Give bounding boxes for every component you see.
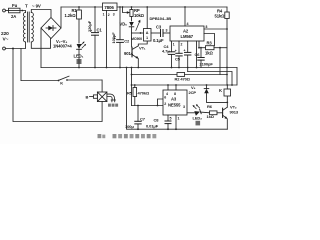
svg-text:10kΩ: 10kΩ [134,13,145,18]
svg-text:5: 5 [170,117,172,121]
wire fuse to transformer primary top [20,11,26,13]
node R1 top rail [78,6,80,8]
svg-text:9013: 9013 [230,110,239,115]
svg-text:6: 6 [164,96,166,100]
label R3 [207,41,213,46]
label 1kOhm R6 [207,114,215,119]
svg-text:2: 2 [164,102,166,106]
node C6 top [200,47,202,49]
label 220uF vertical [87,20,92,32]
label R4 [217,9,223,14]
LED2 red indicator [193,104,210,116]
node y74.5 x227 [226,74,228,76]
svg-text:K: K [219,88,222,93]
label C5 [175,57,181,62]
svg-text:8: 8 [174,92,176,96]
capacitor C1 electrolytic [92,7,99,68]
svg-text:+: + [184,48,186,52]
wire A3 pin3 output [187,112,195,114]
label DPB104-3B [150,16,172,21]
wire switch to valve top [101,80,103,92]
label RP [134,8,140,13]
node C7 top [137,105,139,107]
label 1N4007x4 [53,44,72,49]
wire valve bottom return [13,49,102,122]
resistor R2 [177,73,227,77]
wire lower terminal to primary bottom [5,42,25,49]
svg-text:K: K [60,81,63,86]
node stub rail [122,6,124,8]
capacitor C8 [165,115,171,129]
label VT1 [139,46,146,51]
label 0.01uF [146,124,159,129]
label LED1 [74,54,84,59]
wire VT1 emitter to ground bus [137,59,139,68]
label 51kOhm [215,14,226,19]
svg-text:3: 3 [113,13,115,17]
capacitor C6 [198,48,204,68]
arrow pointing to A1 input node [136,20,141,31]
label B valve [86,94,89,99]
label 470kOhm [138,90,150,95]
IC A3 NE555 [163,90,187,115]
svg-text:2CP: 2CP [189,90,197,95]
wire VD5 node to A1 input [132,32,144,34]
transistor VT1 [132,46,139,59]
sensor module A1 [144,29,152,42]
capacitor C5b [185,41,191,68]
label 220 V~ [1,31,9,43]
node R5 top supply [134,84,136,86]
pin number 4 [187,22,189,26]
svg-text:0.01μF: 0.01μF [146,124,159,129]
svg-text:R5: R5 [127,90,133,95]
wire A2 right side pin to rail x227 [204,28,227,30]
node vertical B supply [131,84,133,86]
pin number 4 [166,92,168,96]
svg-text:1: 1 [173,42,175,46]
wire routing y74.5 from vertical B [132,74,178,76]
svg-text:LM567: LM567 [181,34,194,39]
RP wiper arrow from rail [123,7,131,14]
svg-text:NE555: NE555 [168,103,181,108]
pin number 2 A2 [181,42,183,46]
svg-text:C2: C2 [124,39,130,44]
node vertical B bus [131,67,133,69]
wire bridge minus down to ground bus [40,28,42,68]
bridge rectifier VD1-VD4 diamond [41,18,61,39]
resistor R5 [133,85,137,106]
svg-text:VD₅: VD₅ [120,22,128,27]
node junction at x13 on lower lead [12,48,14,50]
label valve CJK [108,104,118,107]
transformer T primary winding [23,13,25,42]
wire bridge plus to top rail [60,7,62,28]
label T ~9V [25,4,41,9]
svg-text:3: 3 [183,105,185,109]
svg-text:7806: 7806 [104,5,114,10]
node pin1 ground [175,128,177,130]
wire VT1 collector to A1 bottom [138,41,147,46]
polarity mark C5 [175,49,177,53]
relay coil K [224,85,231,96]
node y71.5 supply [231,84,233,86]
svg-text:4: 4 [187,22,189,26]
svg-text:C6: C6 [195,52,201,57]
svg-text:DPB104–3B: DPB104–3B [150,16,172,21]
label 2100pF [200,62,214,67]
label V1~V4 [56,39,67,44]
wire A3 pin8 to supply [175,85,177,90]
svg-text:51kΩ: 51kΩ [215,14,226,19]
svg-text:LED₁: LED₁ [74,54,84,59]
line y106 to A3 [132,105,164,107]
node VD6 collector join [226,102,228,104]
wire A2 right pin2 down to R3 line [204,34,215,46]
label 100uF vertical [111,32,116,44]
label 0.1uF [153,38,164,43]
svg-text:8: 8 [206,25,208,29]
node x196.5 bus [196,67,198,69]
wire ground bus [41,67,237,69]
node C4 bus [171,67,173,69]
svg-text:1N4007×4: 1N4007×4 [53,44,72,49]
svg-text:1.2kΩ: 1.2kΩ [65,13,77,18]
label 10kOhm [134,13,145,18]
label R1 [72,8,78,13]
svg-text:Fu: Fu [12,3,18,8]
svg-text:~ 9V: ~ 9V [32,4,41,9]
label C4 [164,44,170,49]
pin number 5 [170,117,172,121]
wire VT2 emitter to ground [226,119,228,129]
label VD5 [120,22,128,27]
node C5b bus [187,67,189,69]
svg-text:4.7μ: 4.7μ [162,49,170,54]
bridge inner diode symbol [46,26,56,31]
node C2 ground bus [119,67,121,69]
label 100uF [125,124,134,129]
label Fu [12,3,18,8]
LED1 green indicator [77,42,86,68]
supply line y85 lower block [132,84,237,86]
label 2A [11,14,16,19]
label 1kOhm [205,51,213,56]
svg-text:4: 4 [166,92,168,96]
pin number 3 [166,29,168,33]
svg-text:1kΩ: 1kΩ [207,114,215,119]
label R5 [127,90,133,95]
wire top rail right of 7806 [117,6,227,8]
svg-text:1kΩ: 1kΩ [205,51,213,56]
svg-text:A3: A3 [171,97,177,102]
svg-text:C3: C3 [156,25,162,30]
IC A2 LM567 [170,26,204,41]
label VD6 [191,85,196,90]
svg-text:0.1μF: 0.1μF [153,38,164,43]
resistor R1 [77,7,82,43]
node x126.5 bus top [126,67,128,69]
solenoid valve YV box [97,92,107,102]
label 2CP [189,90,197,95]
resistor R3 [199,46,227,50]
polarity mark C1 [90,29,93,33]
svg-text:C8: C8 [154,118,160,123]
node VD6 supply [206,84,208,86]
node stub y105.5 [157,105,159,107]
svg-text:470kΩ: 470kΩ [138,90,150,95]
label R2 470 Ohm [175,76,191,81]
wire vertical B from bus down [131,68,133,106]
svg-text:R2 470Ω: R2 470Ω [175,76,191,81]
valve faucet outlet [107,94,116,102]
label 9014 [124,51,134,56]
transistor VT2 [223,107,228,119]
wire secondary bottom to bridge bottom vertex [31,39,50,49]
capacitor C2 electrolytic [117,7,124,68]
svg-text:R6: R6 [207,104,213,109]
label C2 [124,39,130,44]
wire A3 pin1 to ground [175,115,177,129]
node R3 left [198,47,200,49]
svg-text:A2: A2 [183,29,189,34]
svg-text:2: 2 [108,13,110,17]
node x227 y29 [226,28,228,30]
wire A3 pin4 to supply [167,85,169,90]
label K [219,88,222,93]
switch K contact [21,76,102,81]
svg-text:C7: C7 [140,117,146,122]
label LED2 [193,116,203,121]
node C2 top rail [119,6,121,8]
svg-text:VT₁: VT₁ [139,46,146,51]
node y74.5 vertical B [131,74,133,76]
pin number 2 7806 [108,13,110,17]
svg-text:C5: C5 [175,57,181,62]
resistor R6 [210,111,223,115]
wire top rail [61,6,102,8]
polarity mark C5b [184,48,186,52]
wire R3 right down to y75.5 [219,48,221,75]
label MC900 [131,37,142,41]
label VT2 [230,105,237,110]
caption figure title blocks [98,134,157,138]
label C1 [97,28,103,33]
svg-text:3: 3 [166,29,168,33]
label switch K [60,81,63,86]
node A2 pin4 rail [184,6,186,8]
node C1 ground bus [94,67,96,69]
svg-text:A: A [146,31,149,35]
wire A2 pin to bus x196.5 [196,41,198,68]
node fuse output [21,10,23,12]
node A1 rail [146,6,148,8]
wire A1 top pin to rail [146,7,148,29]
node C5 bus [178,67,180,69]
label C3 [156,25,162,30]
label green [77,59,82,64]
capacitor C4 [168,41,174,68]
svg-text:220μF: 220μF [87,20,92,32]
diode VD5 [129,22,134,47]
pin number 3 [183,105,185,109]
wire routing y71.5 from A2 pin [188,68,232,86]
label 4.7uF [162,49,170,54]
wire A2 top pin 4 to rail [184,7,186,26]
node pin4 supply [167,84,169,86]
svg-text:220: 220 [1,31,9,37]
pin number 3 7806 [113,13,115,17]
pin number 6 [164,96,166,100]
label C8 [154,118,160,123]
node LED1 ground bus [78,67,80,69]
terminal lower 220V input [3,47,6,50]
label plus C2 [114,36,117,40]
wire switch feed from primary bottom [20,49,22,81]
label C7 [140,117,146,122]
label 9013 [230,110,239,115]
svg-text:9014: 9014 [124,51,134,56]
terminal upper 220V input [3,9,9,12]
regulator U 7806 [103,3,118,11]
svg-text:1: 1 [146,36,148,40]
capacitor C5 [176,41,182,68]
svg-text:2: 2 [181,42,183,46]
label C6 [195,52,201,57]
valve left nub [90,95,98,98]
svg-text:2100pF: 2100pF [200,62,214,67]
pin number 8 [174,92,176,96]
svg-text:T: T [25,4,28,9]
node VD5 wire to A1 [140,32,142,34]
label R6 [207,104,213,109]
wire VT2 collector to relay [226,96,228,107]
diode VD6 flyback [204,85,227,102]
svg-text:2A: 2A [11,14,16,19]
capacitor C3 [151,30,170,37]
resistor R4 [225,7,229,85]
wire stub to A3 pin6 [158,99,164,106]
node RP top rail [131,6,133,8]
potentiometer RP [130,7,133,21]
node pin8 supply [175,84,177,86]
svg-text:LED₂: LED₂ [193,116,203,121]
svg-text:C1: C1 [97,28,103,33]
svg-text:1: 1 [103,13,105,17]
label red [196,121,201,126]
pin number 1 A2 [173,42,175,46]
pin number 1 [178,117,180,121]
capacitor C7 electrolytic [135,106,141,130]
wire bus corner to supply line right [236,68,238,86]
pin number 2 [164,102,166,106]
wire A2 right pin stub to R3 [198,41,200,48]
transformer core [28,12,30,42]
svg-text:V~: V~ [3,37,9,43]
svg-text:MC900: MC900 [131,37,142,41]
pin number 1 7806 [103,13,105,17]
pin number 8 A2 [206,25,208,29]
node relay supply [226,84,228,86]
node 7806 gnd bus [106,67,108,69]
node C7 ground [137,128,139,130]
ground bus lower right [127,68,228,130]
node VT1 emitter bus [137,67,139,69]
svg-text:1: 1 [178,117,180,121]
node R3 right x220 [219,47,221,49]
wire secondary top to bridge top vertex [31,10,51,18]
label 1.2kOhm [65,13,77,18]
svg-text:100μF: 100μF [111,32,116,44]
wire 7806 ground pin [106,11,108,68]
svg-text:+: + [175,49,177,53]
svg-text:R3: R3 [207,41,213,46]
node C1 top rail [94,6,96,8]
node x227 bus crossing [226,67,228,69]
svg-text:B: B [86,94,89,99]
fuse Fu [9,8,21,13]
node C8 ground [167,128,169,130]
transformer T secondary winding [31,13,33,42]
